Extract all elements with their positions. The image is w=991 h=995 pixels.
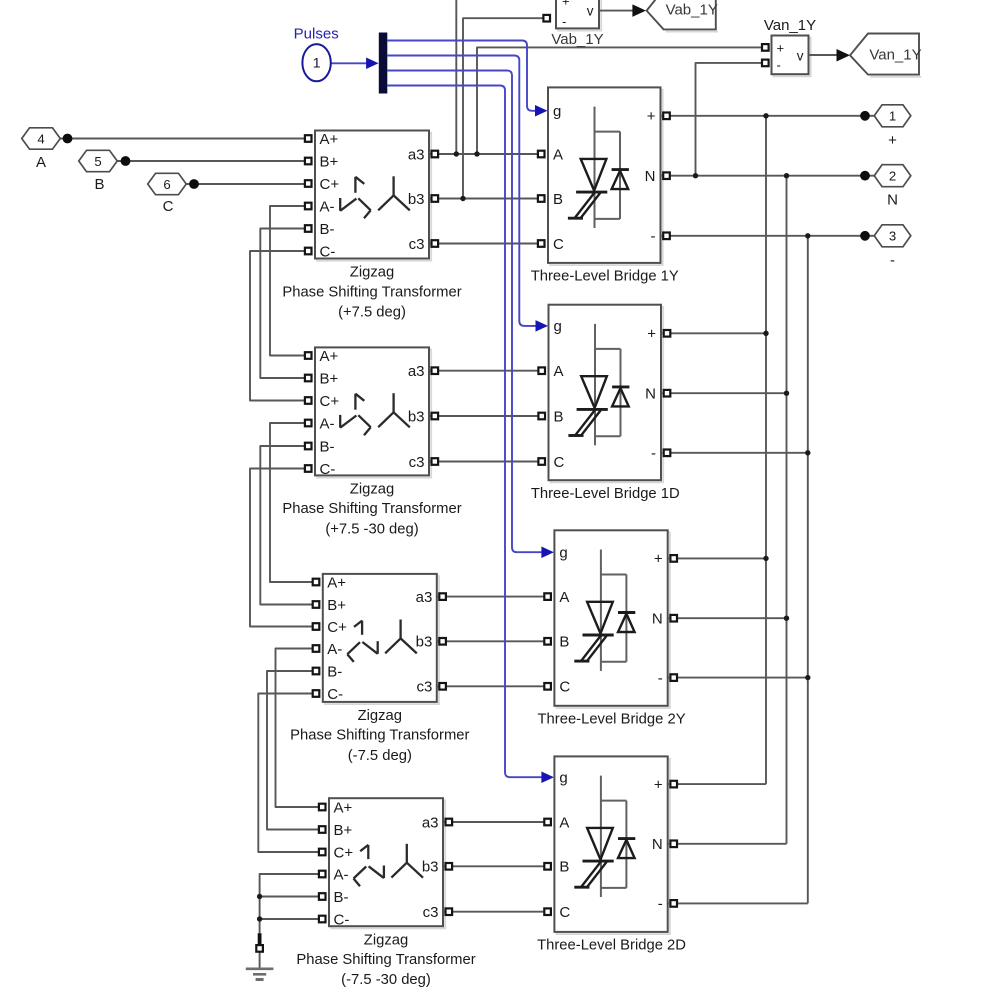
svg-text:5: 5 [94,154,101,169]
svg-text:A+: A+ [327,574,346,591]
svg-text:B+: B+ [320,370,339,387]
svg-text:g: g [559,770,567,787]
svg-text:C-: C- [334,911,350,928]
svg-text:Van_1Y: Van_1Y [869,46,921,63]
svg-text:c3: c3 [409,236,425,253]
svg-text:g: g [559,545,567,562]
svg-text:A: A [559,589,569,606]
svg-text:C: C [559,679,570,696]
svg-text:+: + [647,326,656,343]
svg-text:b3: b3 [408,408,425,425]
svg-text:B: B [554,408,564,425]
svg-text:C-: C- [320,243,336,260]
svg-text:C-: C- [327,686,343,703]
svg-text:+: + [647,108,656,125]
svg-text:Three-Level Bridge 2D: Three-Level Bridge 2D [537,938,686,954]
svg-text:c3: c3 [409,454,425,471]
svg-text:N: N [652,611,663,628]
svg-text:+: + [888,132,897,149]
svg-text:a3: a3 [416,589,433,606]
svg-text:v: v [587,4,594,19]
svg-text:1: 1 [313,55,321,71]
svg-text:A: A [36,154,46,171]
svg-text:C: C [163,198,174,215]
svg-text:B-: B- [327,663,342,680]
svg-text:c3: c3 [416,679,432,696]
svg-text:Zigzag: Zigzag [364,932,408,948]
svg-text:-: - [651,228,656,245]
svg-text:(-7.5 -30 deg): (-7.5 -30 deg) [341,972,431,988]
svg-text:v: v [797,48,804,63]
svg-text:N: N [645,386,656,403]
svg-text:A-: A- [327,641,342,658]
svg-text:Vab_1Y: Vab_1Y [666,2,718,19]
svg-text:a3: a3 [422,814,439,831]
svg-text:g: g [554,318,562,335]
svg-text:A: A [559,814,569,831]
svg-text:B+: B+ [334,822,353,839]
svg-text:Vab_1Y: Vab_1Y [551,31,603,48]
svg-text:b3: b3 [416,634,433,651]
svg-text:A+: A+ [320,348,339,365]
svg-text:+: + [654,551,663,568]
svg-text:C: C [554,454,565,471]
svg-text:(+7.5 -30 deg): (+7.5 -30 deg) [325,521,418,537]
svg-text:-: - [651,445,656,462]
svg-text:a3: a3 [408,363,425,380]
svg-text:B: B [553,191,563,208]
svg-text:Phase Shifting Transformer: Phase Shifting Transformer [296,952,475,968]
svg-text:C+: C+ [334,844,354,861]
svg-text:Phase Shifting Transformer: Phase Shifting Transformer [282,284,461,300]
svg-text:1: 1 [889,109,896,124]
svg-text:2: 2 [889,169,896,184]
svg-text:B: B [559,859,569,876]
svg-text:N: N [652,836,663,853]
svg-text:Zigzag: Zigzag [350,265,394,281]
svg-text:(-7.5 deg): (-7.5 deg) [348,748,412,764]
svg-text:b3: b3 [408,191,425,208]
svg-text:A-: A- [334,866,349,883]
svg-text:Zigzag: Zigzag [350,482,394,498]
svg-text:C+: C+ [320,176,340,193]
svg-text:B+: B+ [327,597,346,614]
svg-text:B-: B- [320,221,335,238]
svg-text:Van_1Y: Van_1Y [764,17,816,34]
svg-text:Three-Level Bridge 2Y: Three-Level Bridge 2Y [538,712,686,728]
svg-text:B+: B+ [320,153,339,170]
svg-text:A: A [553,146,563,163]
svg-text:C+: C+ [320,393,340,410]
svg-text:A+: A+ [320,131,339,148]
svg-text:C: C [559,904,570,921]
svg-text:A+: A+ [334,799,353,816]
svg-text:Phase Shifting Transformer: Phase Shifting Transformer [282,501,461,517]
svg-text:B: B [94,176,104,193]
svg-text:-: - [658,896,663,913]
svg-text:A-: A- [320,198,335,215]
svg-text:(+7.5 deg): (+7.5 deg) [338,304,406,320]
svg-text:Three-Level Bridge 1Y: Three-Level Bridge 1Y [531,269,679,285]
svg-text:-: - [658,670,663,687]
svg-text:+: + [777,41,785,56]
svg-text:c3: c3 [423,904,439,921]
svg-text:A: A [554,363,564,380]
svg-text:+: + [562,0,570,9]
svg-text:Zigzag: Zigzag [358,708,402,724]
svg-text:a3: a3 [408,146,425,163]
svg-text:A-: A- [320,415,335,432]
svg-text:+: + [654,776,663,793]
svg-text:C+: C+ [327,619,347,636]
svg-text:B-: B- [334,889,349,906]
svg-text:Phase Shifting Transformer: Phase Shifting Transformer [290,728,469,744]
svg-text:3: 3 [889,229,896,244]
svg-text:-: - [562,14,566,29]
svg-text:-: - [890,252,895,269]
svg-text:g: g [553,103,561,120]
svg-text:N: N [887,192,898,209]
svg-text:4: 4 [37,131,44,146]
svg-text:b3: b3 [422,859,439,876]
svg-text:-: - [777,58,781,73]
svg-text:N: N [645,168,656,185]
svg-text:Pulses: Pulses [294,25,339,42]
svg-text:6: 6 [163,177,170,192]
svg-text:Three-Level Bridge 1D: Three-Level Bridge 1D [531,486,680,502]
svg-text:C: C [553,236,564,253]
svg-text:C-: C- [320,461,336,478]
svg-text:B: B [559,634,569,651]
svg-text:B-: B- [320,438,335,455]
